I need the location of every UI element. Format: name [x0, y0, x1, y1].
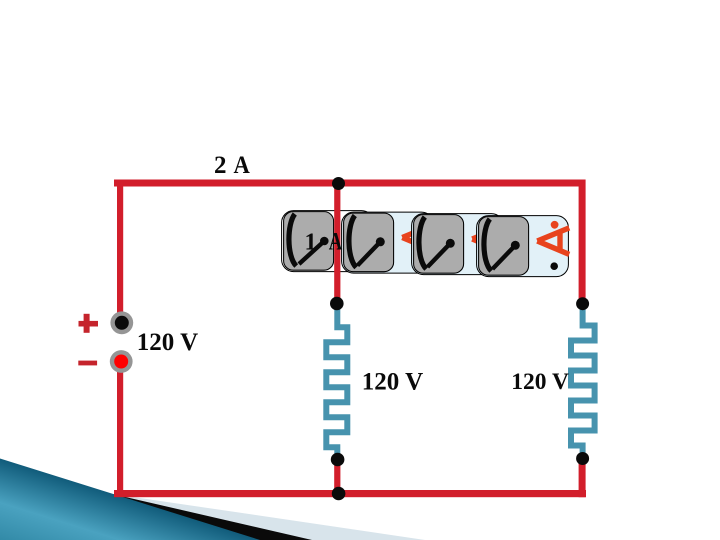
- svg-text:1: 1: [305, 229, 317, 256]
- svg-text:120 V: 120 V: [362, 369, 423, 396]
- svg-text:120 V: 120 V: [511, 369, 569, 395]
- svg-text:120 V: 120 V: [137, 329, 198, 356]
- svg-text:A: A: [329, 229, 343, 256]
- svg-text:A: A: [234, 152, 250, 179]
- svg-text:2: 2: [214, 152, 227, 179]
